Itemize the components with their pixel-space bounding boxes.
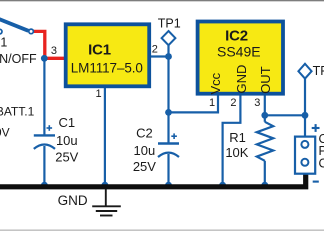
svg-text:LM1117–5.0: LM1117–5.0: [71, 60, 143, 75]
svg-text:10u: 10u: [134, 143, 156, 158]
svg-text:10K: 10K: [225, 145, 248, 160]
svg-text:2: 2: [230, 97, 236, 109]
svg-text:2: 2: [152, 43, 158, 55]
svg-text:CON: CON: [319, 156, 324, 170]
svg-text:GND: GND: [234, 65, 249, 94]
svg-text:10u: 10u: [56, 133, 78, 148]
svg-text:Vcc: Vcc: [208, 72, 223, 94]
svg-text:S1: S1: [0, 36, 7, 50]
svg-text:IC1: IC1: [88, 41, 111, 58]
svg-text:TP1: TP1: [158, 16, 181, 30]
svg-text:C1: C1: [58, 115, 75, 130]
svg-text:GND: GND: [58, 193, 88, 208]
svg-text:R1: R1: [229, 130, 246, 145]
svg-text:SS49E: SS49E: [217, 43, 261, 59]
svg-text:ON/OFF: ON/OFF: [0, 52, 37, 66]
svg-text:3: 3: [254, 97, 260, 109]
svg-text:C2: C2: [136, 126, 153, 141]
svg-text:9V: 9V: [0, 126, 10, 140]
svg-text:1: 1: [209, 97, 215, 109]
svg-text:BATT.1: BATT.1: [0, 105, 35, 119]
svg-text:3: 3: [51, 45, 57, 57]
svg-text:25V: 25V: [133, 159, 156, 174]
svg-text:25V: 25V: [55, 149, 78, 164]
svg-text:IC2: IC2: [225, 27, 248, 44]
svg-text:TP2: TP2: [313, 64, 324, 78]
svg-text:OUT: OUT: [258, 66, 273, 94]
svg-text:1: 1: [95, 88, 101, 100]
